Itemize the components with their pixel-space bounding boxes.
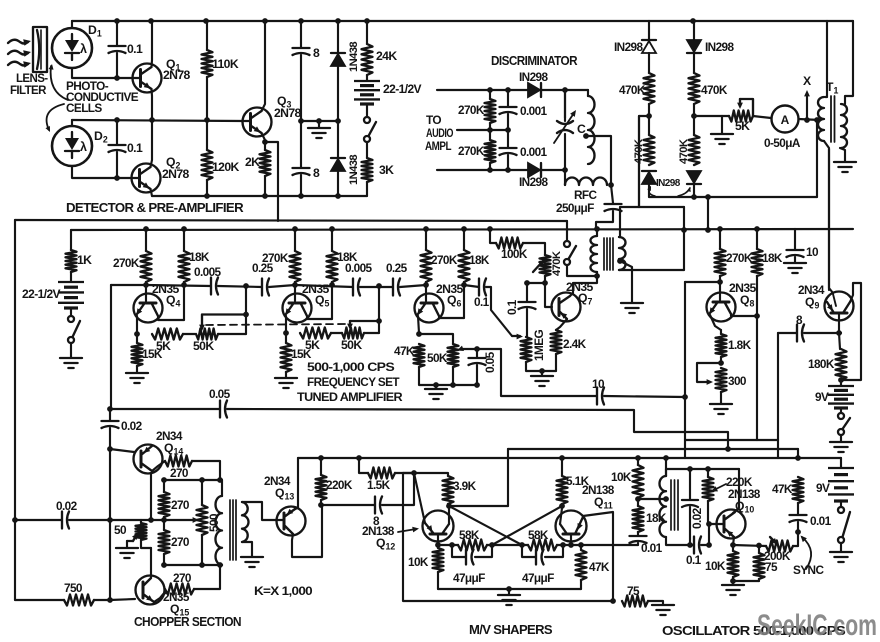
wire 18K8 top xyxy=(756,229,758,249)
junction top rail x117 xyxy=(114,18,120,24)
wire bridgeR bottom xyxy=(693,184,695,197)
wire T1 pri bottom to Q9 xyxy=(824,141,829,290)
capacitor 8 (lower) xyxy=(293,168,310,175)
capacitor 250uuF xyxy=(605,204,622,211)
wire Q10 base xyxy=(709,523,724,525)
svg-text:TO: TO xyxy=(426,113,441,127)
wire 001b bot xyxy=(507,155,509,170)
junction R2 x666 xyxy=(663,455,669,461)
resistor 470K BR xyxy=(689,135,700,165)
wire Q3 base xyxy=(243,120,251,122)
junction left rail y520 xyxy=(12,517,18,523)
wire chsec bot xyxy=(242,542,252,556)
wire 270K6 bot xyxy=(425,282,427,285)
wire cap8b top xyxy=(300,121,302,167)
svg-text:0.01: 0.01 xyxy=(810,514,832,528)
capacitor 0.1 (D1) xyxy=(109,46,126,53)
photocell D1 xyxy=(52,28,92,68)
wire 270Kb top xyxy=(489,130,491,140)
wire base riser xyxy=(708,524,710,545)
capacitor 8 (upper) xyxy=(293,48,310,55)
wire bridgeR mid2 xyxy=(693,104,695,116)
svg-text:0.25: 0.25 xyxy=(386,261,408,275)
junction Q11 base xyxy=(568,542,574,548)
transistor Q11 2N138 xyxy=(556,511,587,542)
ground detector mid xyxy=(308,128,330,138)
svg-text:1N438: 1N438 xyxy=(348,155,360,185)
wire Q4 base feedback xyxy=(111,284,146,286)
junction B2 x597 xyxy=(594,226,600,232)
svg-text:50: 50 xyxy=(114,523,127,537)
wire varC bot xyxy=(564,134,566,170)
ground 75 xyxy=(652,605,674,615)
wire 270K5 top xyxy=(294,229,296,251)
svg-text:200K: 200K xyxy=(764,549,791,563)
svg-text:A: A xyxy=(781,113,790,127)
wire 250 to B2 xyxy=(596,211,613,230)
wire tap link xyxy=(638,498,666,500)
wire T1 primary top feed xyxy=(826,21,828,97)
wire key out xyxy=(567,265,597,276)
wire Q7 collector xyxy=(570,277,597,296)
wire RFC left lead xyxy=(564,170,566,185)
wire Q14 base xyxy=(110,449,134,452)
junction Q8 coll xyxy=(754,313,760,319)
resistor 270K Q8 xyxy=(715,249,726,276)
wire cap0.1b bottom xyxy=(116,152,118,178)
wire bridgeL low xyxy=(648,116,650,135)
wire Q11 emitter xyxy=(583,512,613,601)
wire bridge bottom xyxy=(649,196,817,198)
resistor 18K Q6 xyxy=(459,250,470,282)
wire mv gnd stem xyxy=(508,589,510,594)
capacitor 0.02 chopper left xyxy=(62,512,69,529)
svg-text:8: 8 xyxy=(313,46,320,60)
wire cap0.1a top xyxy=(116,21,118,45)
light arrow xyxy=(8,51,28,55)
junction 0.02 bottom xyxy=(687,542,693,548)
svg-text:270: 270 xyxy=(171,498,190,512)
wire 100K to 470K xyxy=(523,243,545,255)
Q3 internals xyxy=(249,114,252,131)
resistor 10K Q12 xyxy=(433,548,444,572)
wire y469 node xyxy=(666,468,739,470)
wire 1.8K bot xyxy=(720,357,722,363)
potentiometer 470K Q7 xyxy=(540,255,551,276)
junction x110 y520 xyxy=(107,517,113,523)
wire 270b top xyxy=(163,480,165,492)
transistor Q10 2N138 xyxy=(717,510,746,539)
resistor 3K xyxy=(362,158,373,182)
wire Q12 coll to riser xyxy=(449,505,508,507)
wire Q7 base xyxy=(545,283,552,307)
wire 5K-50K a xyxy=(183,333,195,335)
50K Q5 wiper xyxy=(347,324,353,330)
wire chsec top xyxy=(242,502,277,520)
wire 2.4K bot xyxy=(555,354,557,371)
svg-text:DETECTOR & PRE-AMPLIFIER: DETECTOR & PRE-AMPLIFIER xyxy=(66,201,244,215)
wire chpri top xyxy=(221,480,223,496)
resistor 1K xyxy=(66,250,77,272)
wire varC top2 xyxy=(564,90,566,121)
junction y545 x709 xyxy=(706,542,712,548)
junction meter X xyxy=(804,117,810,123)
diode 1N298 bridge TR xyxy=(687,40,701,52)
wire bridge left drop xyxy=(638,116,640,207)
wire Q5 coll riser xyxy=(331,285,333,319)
arrow to Q12 xyxy=(398,529,416,532)
capacitor 0.1 (D2) xyxy=(109,145,126,152)
capacitor 0.25 a xyxy=(262,279,269,296)
svg-text:270: 270 xyxy=(171,535,190,549)
transformer coupling secondary xyxy=(619,237,626,270)
svg-text:24K: 24K xyxy=(376,49,397,63)
svg-text:10: 10 xyxy=(806,245,819,259)
capacitor 0.01 MV xyxy=(630,536,647,543)
Q2 internals xyxy=(138,170,141,187)
resistor 2K xyxy=(260,150,271,176)
wire bridgeL mid2 xyxy=(648,104,650,116)
junction Q5 base xyxy=(292,282,298,288)
junction x319 y121 xyxy=(316,118,322,124)
svg-text:λ: λ xyxy=(80,42,87,56)
wire left border rail xyxy=(14,220,16,600)
wire Q5 fb bracket xyxy=(350,320,379,322)
svg-text:TUNED AMPLIFIER: TUNED AMPLIFIER xyxy=(297,390,403,404)
wire 15K5 top xyxy=(285,333,287,343)
junction top rail x338 xyxy=(335,18,341,24)
wire D1 top lead xyxy=(71,21,73,28)
wire Q12 emitter diag xyxy=(414,473,425,523)
junction d1 x490 xyxy=(487,87,493,93)
svg-text:58K: 58K xyxy=(528,528,549,542)
wire 0.02a top xyxy=(109,409,111,420)
wire sec tap gnd xyxy=(620,261,632,302)
wire 300 bot xyxy=(720,392,722,403)
svg-text:0.001: 0.001 xyxy=(520,145,548,159)
wire node D2-Q1e-Q3b xyxy=(72,120,243,121)
wire Q15 collector xyxy=(150,575,152,578)
diode 1N298 bridge BR xyxy=(687,171,701,183)
wire 75osc bot xyxy=(758,579,760,581)
wire 15K4 gnd xyxy=(136,366,138,372)
Q7 internals xyxy=(558,299,561,316)
transistor Q9 2N34 xyxy=(825,292,854,321)
wire cap0.1b top xyxy=(116,120,118,144)
junction d3 x508 xyxy=(505,167,511,173)
svg-text:M/V SHAPERS: M/V SHAPERS xyxy=(469,623,552,637)
wire 0.01 to 200K xyxy=(797,522,799,546)
svg-text:1K: 1K xyxy=(77,253,92,267)
resistor 110K xyxy=(202,50,213,77)
wire Q15 coll riser xyxy=(150,548,152,575)
500 wiper arrow xyxy=(193,517,199,523)
junction mv emitter x613 xyxy=(610,598,616,604)
svg-text:0.1: 0.1 xyxy=(474,295,490,309)
ground Q10 xyxy=(722,585,744,595)
wire Q6 coll riser xyxy=(463,285,465,318)
svg-text:5K: 5K xyxy=(735,119,750,133)
junction d3 x490 xyxy=(487,167,493,173)
svg-text:CELLS: CELLS xyxy=(66,101,102,115)
junction R2 x798 xyxy=(795,455,801,461)
wire 1.5K feed xyxy=(359,458,368,473)
svg-text:300: 300 xyxy=(728,374,747,388)
junction Q4 coll node xyxy=(181,282,187,288)
wire cap10b bot xyxy=(794,257,796,262)
junction fb x379 xyxy=(376,283,382,289)
wire Q13 emitter xyxy=(292,505,322,557)
resistor 270K discr upper xyxy=(485,99,496,123)
wire bridgeR top xyxy=(693,21,695,40)
svg-text:IN298: IN298 xyxy=(656,178,681,189)
wire 0.1v bot xyxy=(526,309,528,336)
transformer osc coil xyxy=(659,476,666,537)
wire coupling to 10cap xyxy=(477,349,597,396)
junction 180K bottom xyxy=(838,377,844,383)
junction y565 x164 xyxy=(161,562,167,568)
ground Q6 net xyxy=(425,389,447,399)
wire node284 f xyxy=(400,285,426,287)
wire cap8 Q9 left xyxy=(778,332,797,334)
junction d1 x508 xyxy=(505,87,511,93)
resistor 270 d xyxy=(165,584,194,595)
resistor 47K Q6 xyxy=(414,344,425,367)
junction Q9 emitter xyxy=(836,330,842,336)
wire sw osc gnd xyxy=(840,543,842,551)
svg-text:270K: 270K xyxy=(458,144,485,158)
junction B0 x265 xyxy=(262,193,268,199)
wire 270Kb bot xyxy=(489,163,491,170)
svg-text:0.01: 0.01 xyxy=(641,541,663,555)
junction net1 left xyxy=(449,542,455,548)
svg-text:SeekIC.com: SeekIC.com xyxy=(757,609,877,642)
resistor 3.9K xyxy=(443,476,454,504)
wire node284 c xyxy=(269,285,295,287)
svg-text:10K: 10K xyxy=(611,470,632,484)
capacitor 0.05 L1 xyxy=(220,401,227,418)
wire 75 to gnd xyxy=(648,601,663,604)
junction Q4 base xyxy=(143,282,149,288)
Q8 internals xyxy=(719,282,721,300)
wire Q4 fb bracket xyxy=(202,313,246,315)
junction x545 y283 xyxy=(542,280,548,286)
junction x152 y120 xyxy=(149,117,155,123)
junction x207 y120 xyxy=(204,117,210,123)
wire 270d out xyxy=(194,565,220,589)
junction coil tap osc xyxy=(663,496,669,502)
wire 5.1K top xyxy=(561,458,563,476)
wire y480 bus xyxy=(164,479,222,481)
wire 47K to 0.01 xyxy=(797,503,799,514)
wire Q10 emitter xyxy=(733,537,734,545)
wire osc coil feed xyxy=(665,458,667,476)
1MEG wiper xyxy=(512,335,520,337)
wire Q15 emitter xyxy=(154,592,165,602)
svg-text:0-50μA: 0-50μA xyxy=(764,136,801,150)
wire 270K5 bot xyxy=(294,282,296,285)
potentiometer 300 xyxy=(716,368,727,392)
diode 1N298 bridge BL xyxy=(642,172,656,184)
resistor 15K Q5 xyxy=(281,343,292,372)
wire y440 link xyxy=(685,439,778,441)
wire discr bot xyxy=(437,169,528,171)
arrow X xyxy=(806,95,808,120)
wire 1N438a top xyxy=(337,21,339,52)
wire node284 e xyxy=(360,286,393,288)
capacitor 8 Q9 xyxy=(797,325,804,342)
wire cross diag 1 xyxy=(449,506,522,545)
300 wiper xyxy=(697,363,721,382)
wire 0.05 bot xyxy=(476,365,478,385)
svg-text:270K: 270K xyxy=(458,103,485,117)
junction x414 y473 xyxy=(411,470,417,476)
transistor Q8 2N35 xyxy=(707,293,736,322)
Q6 internals xyxy=(425,285,427,301)
junction R2 x638 xyxy=(635,455,641,461)
junction x527 y283 xyxy=(524,280,530,286)
resistor 270 b xyxy=(159,492,170,517)
wire detector bottom xyxy=(152,195,367,197)
wire 220Kosc top xyxy=(707,469,709,477)
svg-text:50K: 50K xyxy=(341,338,362,352)
resistor 270 c xyxy=(159,530,170,554)
wire 120K bottom xyxy=(206,180,208,196)
wire 50 gnd stem xyxy=(126,541,128,547)
wire bridge to B2 xyxy=(707,197,709,230)
wire L1 long xyxy=(110,408,220,410)
200K wiper xyxy=(770,537,776,543)
resistor 220K osc xyxy=(703,477,714,501)
transformer chopper primary xyxy=(215,496,222,565)
junction B0 x338 xyxy=(335,193,341,199)
wire Q12 base xyxy=(437,534,439,545)
capacitor 0.001 upper xyxy=(500,107,517,114)
junction 300 top xyxy=(718,360,724,366)
wire RFC to cap xyxy=(611,185,613,203)
junction sync x685 xyxy=(682,394,688,400)
wire 15K5 gnd xyxy=(285,372,287,377)
resistor 100K xyxy=(496,238,523,249)
potentiometer 50K Q6 xyxy=(448,344,459,367)
wire T1 sec bottom xyxy=(840,148,845,161)
Q9 internals xyxy=(831,312,847,315)
battery 9V Q9 xyxy=(828,385,854,387)
wire 500 bot xyxy=(201,535,203,565)
capacitor 47uuF left xyxy=(466,550,474,565)
transistor Q3 2N78 xyxy=(243,108,272,137)
capacitor 10 bypass xyxy=(787,250,804,257)
wire Q11 base xyxy=(570,534,572,545)
svg-text:2N78: 2N78 xyxy=(163,68,191,82)
svg-text:250μμF: 250μμF xyxy=(556,201,594,215)
diode 1N438 lower xyxy=(331,159,345,171)
wire mv bottom xyxy=(438,588,581,590)
svg-text:0.02: 0.02 xyxy=(56,499,78,513)
junction y565 x202 xyxy=(199,562,205,568)
junction B2 x295 xyxy=(292,226,298,232)
cap 47uuF left loop xyxy=(452,545,492,557)
wire 50K Q5 right xyxy=(364,332,379,334)
junction y520 x164 xyxy=(161,517,167,523)
battery 9V osc xyxy=(828,467,854,469)
junction R2 x562 xyxy=(559,455,565,461)
junction RFC right xyxy=(608,182,614,188)
junction Q5 fb xyxy=(376,318,382,324)
capacitor 8 MV xyxy=(375,497,382,514)
svg-text:58K: 58K xyxy=(459,528,480,542)
junction Q12 coll xyxy=(446,503,452,509)
svg-text:3K: 3K xyxy=(379,163,394,177)
wire Q9 emitter drop xyxy=(777,333,779,440)
capacitor 0.02 chopper top xyxy=(102,421,119,428)
ground xfmr sec xyxy=(621,303,643,313)
junction B2 x426 xyxy=(423,226,429,232)
junction Q4 fb xyxy=(243,312,249,318)
resistor 470K TR xyxy=(689,73,700,104)
svg-text:220K: 220K xyxy=(326,478,353,492)
wire 10K2 bot xyxy=(732,577,734,581)
wire discr mid xyxy=(457,129,508,131)
transistor Q5 2N35 xyxy=(283,294,312,323)
wire Q8 base feed xyxy=(685,281,720,283)
svg-text:470K: 470K xyxy=(678,139,690,164)
wire 1.5K out xyxy=(395,472,414,474)
resistor 18K osc xyxy=(633,506,644,532)
wire 75osc top xyxy=(758,546,760,554)
wire 001b top xyxy=(507,130,509,147)
wire discr top xyxy=(437,89,528,91)
junction net bot x436 xyxy=(433,382,439,388)
resistor 58K right xyxy=(528,540,557,551)
diode 1N438 upper xyxy=(331,54,345,66)
wire 50K6 bot xyxy=(452,367,454,385)
resistor 10K Q10 xyxy=(728,551,739,577)
wire batt2 to sw xyxy=(70,308,72,316)
resistor 120K xyxy=(202,150,213,180)
wire emitter to 200K xyxy=(733,545,766,546)
svg-text:0.1: 0.1 xyxy=(127,141,143,155)
wire Q3 collector xyxy=(262,21,266,111)
wire B1 rail xyxy=(15,220,567,221)
wire cross diag 2 xyxy=(492,506,562,545)
wire 0.1v top xyxy=(526,283,528,301)
wire bridgeL top xyxy=(648,21,650,40)
wire mv node wire xyxy=(403,472,414,474)
ground MV xyxy=(498,595,520,605)
svg-text:DISCRIMINATOR: DISCRIMINATOR xyxy=(491,54,578,68)
wire batt9a to sw xyxy=(840,408,842,413)
resistor 10K osc xyxy=(633,465,644,498)
svg-text:270K: 270K xyxy=(431,253,458,267)
transistor Q2 2N78 xyxy=(132,164,161,193)
Q10 internals xyxy=(723,516,726,532)
junction Q10 emitter xyxy=(730,542,736,548)
wire 270K8 bot xyxy=(719,276,721,282)
wire top rail xyxy=(72,20,853,22)
junction B0 x207 xyxy=(204,193,210,199)
ground amp battery xyxy=(60,358,82,368)
wire cap8 Q9 right xyxy=(804,332,841,334)
wire D1 bottom lead xyxy=(72,68,133,78)
junction top rail x265 xyxy=(262,18,268,24)
svg-text:100K: 100K xyxy=(501,247,528,261)
junction B0 x301 xyxy=(298,193,304,199)
junction net1 right xyxy=(489,542,495,548)
wire bridgeL to xfmr xyxy=(639,116,649,207)
transformer T1 primary xyxy=(818,97,824,141)
junction 0.05 node xyxy=(474,346,480,352)
